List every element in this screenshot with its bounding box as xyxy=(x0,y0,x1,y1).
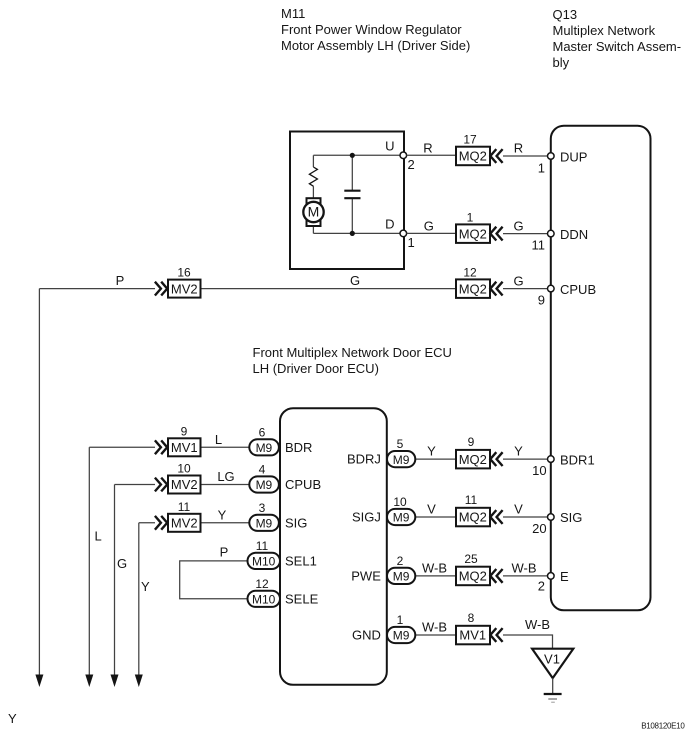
svg-text:5: 5 xyxy=(397,437,404,451)
svg-text:LH (Driver Door ECU): LH (Driver Door ECU) xyxy=(253,361,379,376)
svg-text:R: R xyxy=(514,141,523,156)
svg-text:12: 12 xyxy=(255,577,269,591)
svg-text:Y: Y xyxy=(141,579,150,594)
svg-text:P: P xyxy=(220,545,229,560)
svg-text:Y: Y xyxy=(514,444,523,459)
svg-text:MQ2: MQ2 xyxy=(459,569,487,584)
svg-text:9: 9 xyxy=(468,435,475,449)
svg-text:BDR: BDR xyxy=(285,440,312,455)
svg-text:SIG: SIG xyxy=(285,516,307,531)
svg-text:W-B: W-B xyxy=(525,617,550,632)
svg-text:U: U xyxy=(385,139,394,154)
svg-text:SEL1: SEL1 xyxy=(285,553,317,568)
svg-text:10: 10 xyxy=(532,463,546,478)
svg-text:Motor Assembly LH (Driver Side: Motor Assembly LH (Driver Side) xyxy=(281,38,470,53)
svg-text:R: R xyxy=(423,141,432,156)
svg-text:11: 11 xyxy=(532,238,546,253)
svg-text:1: 1 xyxy=(467,211,474,225)
svg-text:11: 11 xyxy=(465,493,478,507)
svg-text:W-B: W-B xyxy=(511,560,536,575)
svg-text:Q13: Q13 xyxy=(553,7,578,22)
svg-text:10: 10 xyxy=(177,462,191,476)
svg-text:9: 9 xyxy=(538,293,545,308)
svg-text:G: G xyxy=(117,556,127,571)
svg-text:G: G xyxy=(424,219,434,234)
svg-text:M11: M11 xyxy=(281,6,305,21)
svg-text:P: P xyxy=(116,273,125,288)
svg-text:17: 17 xyxy=(463,133,477,147)
svg-text:G: G xyxy=(350,273,360,288)
svg-text:B108120E10: B108120E10 xyxy=(641,721,685,730)
svg-text:Y: Y xyxy=(8,711,17,726)
svg-text:1: 1 xyxy=(397,613,404,627)
svg-text:12: 12 xyxy=(463,265,477,279)
svg-text:2: 2 xyxy=(397,554,404,568)
svg-text:10: 10 xyxy=(393,495,407,509)
svg-text:16: 16 xyxy=(177,266,191,280)
svg-text:9: 9 xyxy=(181,424,188,438)
svg-text:V1: V1 xyxy=(544,652,560,667)
svg-text:M9: M9 xyxy=(393,570,410,584)
svg-text:E: E xyxy=(560,569,569,584)
svg-text:2: 2 xyxy=(538,579,545,594)
svg-text:BDRJ: BDRJ xyxy=(347,452,381,467)
svg-text:DUP: DUP xyxy=(560,149,587,164)
svg-text:1: 1 xyxy=(538,160,545,175)
svg-text:W-B: W-B xyxy=(422,560,447,575)
svg-text:M9: M9 xyxy=(393,453,410,467)
svg-text:MV2: MV2 xyxy=(171,281,198,296)
svg-text:MV1: MV1 xyxy=(171,440,198,455)
svg-text:G: G xyxy=(513,219,523,234)
svg-text:Front Multiplex Network Door E: Front Multiplex Network Door ECU xyxy=(253,345,452,360)
svg-text:M10: M10 xyxy=(252,593,276,607)
svg-text:MV2: MV2 xyxy=(171,516,198,531)
svg-text:MQ2: MQ2 xyxy=(459,149,487,164)
svg-text:L: L xyxy=(95,529,102,544)
svg-text:11: 11 xyxy=(256,539,269,553)
svg-text:L: L xyxy=(215,432,222,447)
svg-text:SELE: SELE xyxy=(285,591,319,606)
svg-text:DDN: DDN xyxy=(560,227,588,242)
svg-text:4: 4 xyxy=(259,463,266,477)
svg-text:25: 25 xyxy=(464,552,478,566)
svg-text:V: V xyxy=(427,502,436,517)
svg-text:6: 6 xyxy=(259,425,266,439)
svg-text:1: 1 xyxy=(408,235,415,250)
svg-text:M9: M9 xyxy=(256,441,273,455)
svg-text:Front Power Window Regulator: Front Power Window Regulator xyxy=(281,22,462,37)
svg-text:2: 2 xyxy=(408,157,415,172)
svg-text:M10: M10 xyxy=(252,555,276,569)
svg-text:Master Switch Assem-: Master Switch Assem- xyxy=(553,39,682,54)
svg-text:V: V xyxy=(514,502,523,517)
svg-text:Multiplex Network: Multiplex Network xyxy=(553,23,656,38)
svg-text:MQ2: MQ2 xyxy=(459,510,487,525)
svg-text:20: 20 xyxy=(532,521,546,536)
svg-text:CPUB: CPUB xyxy=(560,282,596,297)
svg-text:LG: LG xyxy=(217,469,234,484)
svg-text:M9: M9 xyxy=(256,517,273,531)
svg-text:MQ2: MQ2 xyxy=(459,452,487,467)
svg-text:GND: GND xyxy=(352,628,381,643)
svg-text:BDR1: BDR1 xyxy=(560,452,595,467)
svg-text:M: M xyxy=(308,204,320,220)
svg-text:MQ2: MQ2 xyxy=(459,226,487,241)
svg-text:SIG: SIG xyxy=(560,510,582,525)
svg-text:SIGJ: SIGJ xyxy=(352,510,381,525)
svg-text:W-B: W-B xyxy=(422,620,447,635)
svg-text:M9: M9 xyxy=(393,629,410,643)
svg-text:Y: Y xyxy=(218,507,227,522)
svg-text:CPUB: CPUB xyxy=(285,477,321,492)
svg-text:MV1: MV1 xyxy=(459,628,486,643)
svg-text:G: G xyxy=(513,274,523,289)
svg-text:M9: M9 xyxy=(256,478,273,492)
svg-text:MV2: MV2 xyxy=(171,477,198,492)
svg-text:3: 3 xyxy=(259,501,266,515)
svg-text:bly: bly xyxy=(553,55,570,70)
svg-text:11: 11 xyxy=(178,500,191,514)
svg-text:8: 8 xyxy=(468,611,475,625)
svg-text:D: D xyxy=(385,217,394,232)
svg-text:Y: Y xyxy=(427,444,436,459)
svg-text:MQ2: MQ2 xyxy=(459,282,487,297)
svg-text:M9: M9 xyxy=(393,511,410,525)
svg-text:PWE: PWE xyxy=(351,568,381,583)
